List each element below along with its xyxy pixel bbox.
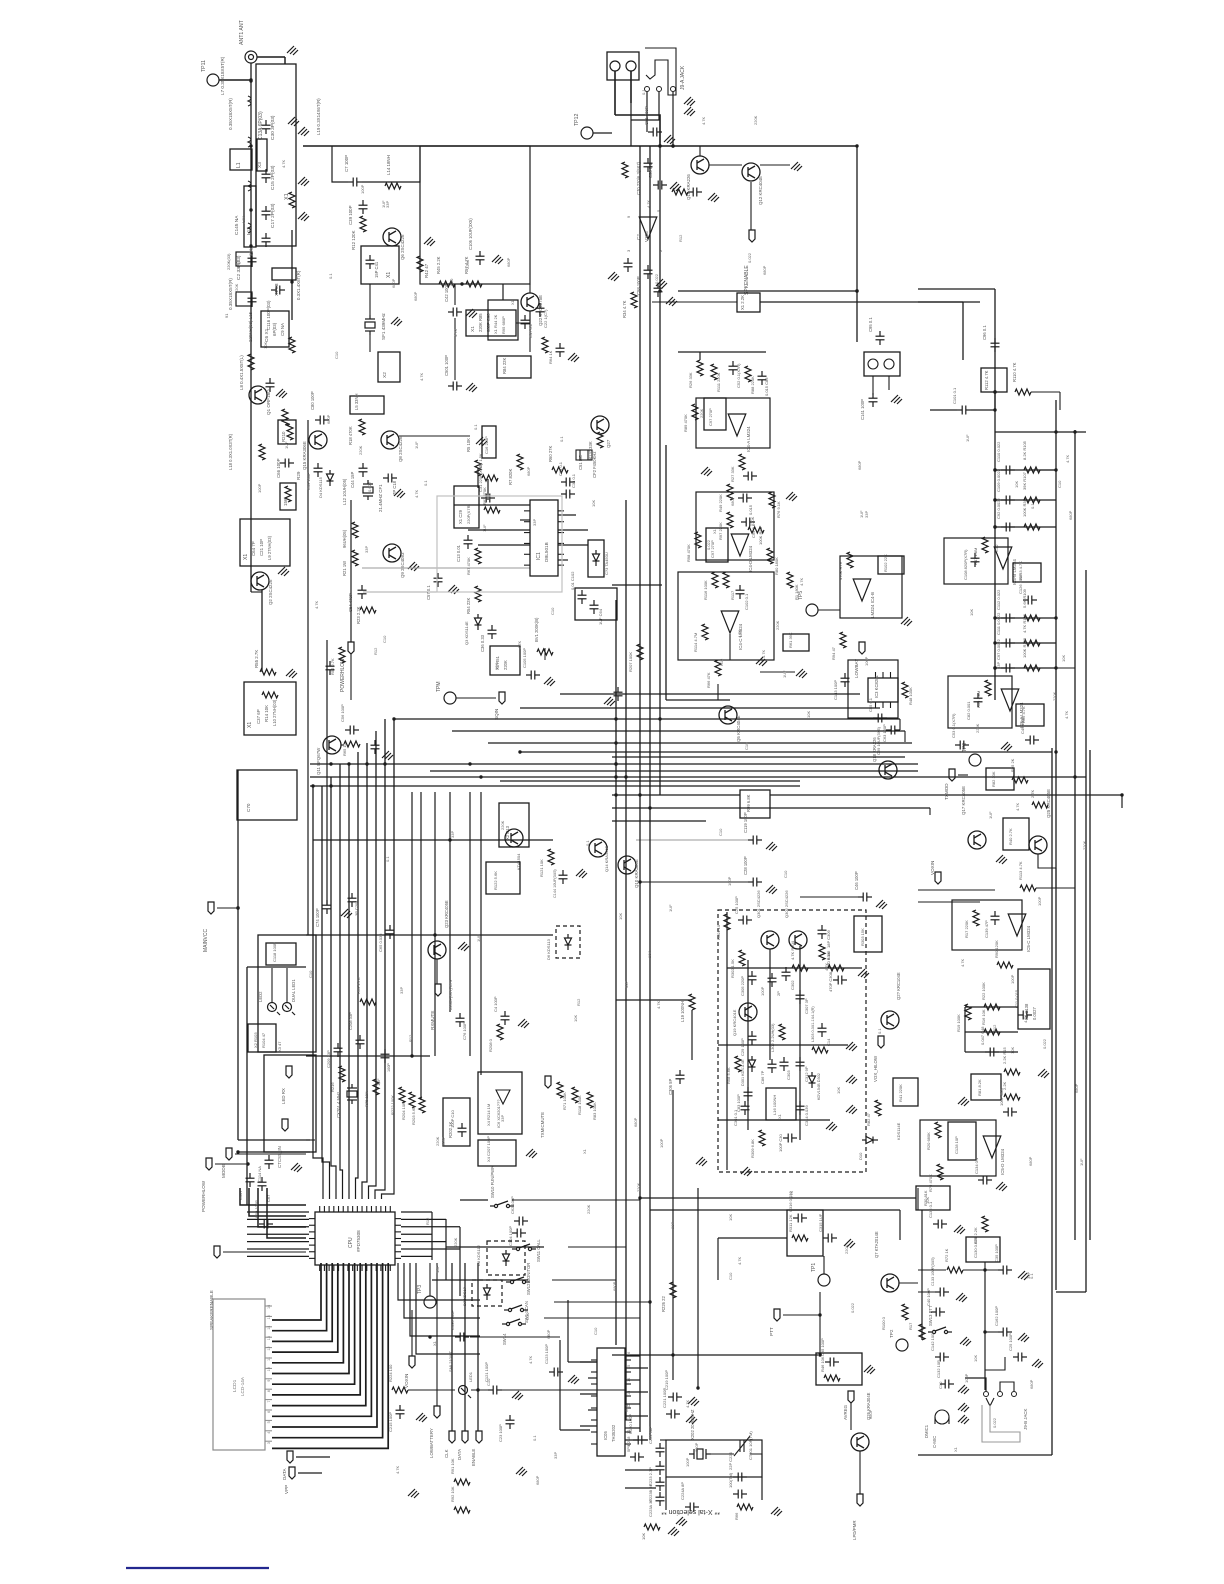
svg-text:R12: R12 [992,1024,997,1032]
svg-text:SW10 FUN/PWR: SW10 FUN/PWR [490,1166,495,1198]
wire [750,182,752,230]
svg-text:L7 0.35X18X5T(R): L7 0.35X18X5T(R) [220,56,225,95]
svg-text:33P: 33P [553,1452,558,1459]
capacitor C309 18P [818,925,827,939]
wire loop mixer [420,146,530,284]
ground [408,562,419,571]
wire [612,794,740,796]
capacitor C83b 0.015 [758,371,767,385]
wire [1055,868,1057,888]
wire loop IC4-D [696,492,774,560]
svg-text:10K: 10K [836,1087,841,1094]
svg-text:R91 10K: R91 10K [450,1458,455,1474]
wire [478,544,530,546]
wire LCD data [272,1263,349,1374]
resistor R97 220K [727,512,733,528]
svg-text:Q11 BFQ67W: Q11 BFQ67W [316,747,321,775]
ground [276,389,287,398]
svg-text:C59 100P: C59 100P [254,1200,259,1218]
transistor Q18 KRA226 [879,761,897,779]
ground [298,212,309,221]
capacitor C5 [248,293,257,307]
svg-text:14: 14 [267,1326,271,1330]
svg-text:10K: 10K [806,711,811,718]
svg-text:10K: 10K [263,342,268,349]
transistor Q9 2SC4083 [383,544,401,562]
wire VCO [718,1119,830,1121]
wire [888,376,890,390]
svg-text:CLK: CLK [444,1449,449,1458]
svg-text:R64 1K: R64 1K [548,350,553,364]
net flag MODE [226,1148,232,1160]
svg-text:10K: 10K [647,951,652,958]
svg-text:TXMOD: TXMOD [944,783,949,800]
svg-text:LPD/PMR: LPD/PMR [852,1520,857,1540]
capacitor C108 820P [971,553,980,567]
wire [672,1090,674,1380]
svg-text:C10: C10 [938,1381,943,1389]
resistor R?b [1032,802,1048,808]
wire [468,529,530,531]
resistor R18 470K [359,419,365,435]
wire IC05 pin [625,1439,648,1441]
wire [917,1188,919,1210]
op-amp IC5-D LM324 [983,1136,1001,1158]
wire [612,820,706,822]
svg-text:0.022: 0.022 [1042,1038,1047,1049]
svg-text:680P: 680P [413,291,418,301]
svg-text:R19 100K: R19 100K [956,1014,961,1032]
ground [286,669,297,678]
op-amp IC4-D LM324 [731,534,749,556]
svg-text:D10: D10 [858,1152,863,1160]
svg-text:L16 100NH: L16 100NH [772,1095,777,1115]
wire CPU feed [356,1150,359,1199]
wire [1059,392,1061,410]
RC block C85 R46 [816,1353,862,1385]
transistor Q12 KRC404E [742,163,760,181]
junction [614,793,617,796]
svg-text:1UF: 1UF [1079,1158,1084,1166]
wire [445,1219,447,1280]
ground [448,585,459,594]
ground [394,489,405,498]
svg-text:4.7K: 4.7K [414,489,419,498]
wire CPU feed [331,1150,336,1199]
ground [958,1415,969,1424]
svg-text:C25 100P: C25 100P [1008,1333,1013,1351]
net flag TXMOD [949,769,955,781]
svg-text:1UF: 1UF [476,934,481,942]
capacitor C24 0.1 [688,188,702,197]
jack J9-B body [982,1405,1020,1442]
svg-text:X1: X1 [953,1446,958,1452]
part X2 R103 R104 [248,1024,276,1052]
wire CPU right pin [401,1226,460,1228]
svg-text:V386: V386 [644,231,649,242]
svg-text:C53 0.1(X7R): C53 0.1(X7R) [951,713,956,738]
wire [410,1263,480,1336]
resistor R21 [285,486,291,502]
wire [313,839,553,841]
svg-text:PTT: PTT [769,1327,774,1336]
resistor R47 1.8M [982,537,988,553]
svg-text:L303 0.3X1.1X4.1(R): L303 0.3X1.1X4.1(R) [811,1006,815,1042]
part X2 D13 KTA1504 [499,803,529,847]
svg-text:X1: X1 [386,272,392,278]
wire vertical long [659,146,661,795]
resistor R55 2.7K [260,669,276,675]
resistor R49 220K [727,484,733,500]
wire bus horizontal [310,785,800,787]
dashed diode D6 KDS113 [556,926,580,958]
resistor R91 10K [454,1479,470,1485]
svg-text:X1: X1 [470,326,476,332]
part X2 R56 4.7K [1016,704,1044,726]
wire [963,1269,998,1271]
svg-text:DMIC1: DMIC1 [924,1424,929,1438]
part X1 L3 [272,268,296,280]
ground [901,617,912,626]
svg-text:470P C308: 470P C308 [828,971,833,992]
svg-text:L12 10UH(05): L12 10UH(05) [342,478,347,505]
wire [420,792,422,1100]
ground [741,1167,752,1176]
wire [666,699,730,701]
svg-text:R216: R216 [330,1082,335,1092]
junction [671,1353,674,1356]
svg-text:10: 10 [267,1367,271,1371]
svg-text:13: 13 [267,1336,271,1340]
capacitor C47 [521,315,530,329]
svg-text:SW12 MONITOR: SW12 MONITOR [526,1263,531,1295]
jack pins [645,87,676,92]
wire [965,1051,1018,1053]
junction [448,838,451,841]
svg-text:Q12 KRC404E: Q12 KRC404E [758,176,763,205]
svg-text:4.7K: 4.7K [789,1190,794,1199]
capacitor C13 0.01 [464,535,473,549]
resistor R27 33K [739,454,745,470]
wire [529,284,531,293]
wire vertical [665,445,667,700]
capacitor C57 0.1 [434,573,443,587]
part X1 R210 [278,420,296,444]
wire LCD data [272,1263,355,1384]
resistor R1 180K [787,572,793,588]
resistor R82b 47 [875,1100,881,1116]
net flag ENABLE [476,1431,482,1443]
junction [993,525,996,528]
svg-text:L10 27NH(03): L10 27NH(03) [272,699,277,726]
svg-text:0.015: 0.015 [748,504,753,515]
resistor R304 4.7K [792,965,808,971]
shield box X1 [256,64,296,246]
svg-text:Q1 ORF16D: Q1 ORF16D [266,389,271,415]
capacitor C? [624,258,633,272]
wire CPU feed [340,1150,343,1199]
wire [306,1055,430,1057]
capacitor C134 0.1 [978,1176,992,1185]
wire speaker net [249,1188,306,1216]
ground [958,1385,969,1394]
part X1 R84 22K [497,356,531,378]
svg-text:R66: R66 [734,1512,739,1520]
capacitor C223B 3P [656,1477,665,1491]
wire [646,92,648,132]
svg-text:TP12: TP12 [574,113,580,126]
resistor R25 1.5K [482,475,498,481]
svg-text:C10: C10 [624,1404,629,1412]
capacitor C316 0.033 [793,1214,807,1223]
svg-text:91: 91 [224,313,229,318]
wire CPU left pin [247,1233,309,1235]
ground [996,1182,1007,1191]
ground [424,237,435,246]
junction [993,408,996,411]
resistor R20 680K [935,1122,941,1138]
capacitor C208 33P [356,1035,365,1049]
svg-text:C119 100P: C119 100P [743,812,748,833]
svg-text:R90 120K: R90 120K [994,940,999,958]
svg-text:0.047 C48: 0.047 C48 [980,1026,985,1045]
capacitor C18 7P [383,474,397,483]
resistor R89 470K [692,404,698,420]
ground [846,1075,857,1084]
svg-text:C76 100P: C76 100P [462,1022,467,1040]
wire IC05 pin [625,1403,640,1405]
wire [612,1354,818,1356]
resistor R45 2.2K [439,281,455,287]
svg-text:C306 5P: C306 5P [668,1078,673,1095]
svg-text:R104 47: R104 47 [261,1032,266,1048]
mixer block X1 [361,246,399,284]
part X2 R122 5.6K [486,862,520,894]
wire [487,479,489,500]
resistor R203 5.6K [419,1097,425,1113]
filter block L11 [244,186,256,247]
capacitor C119 100P [748,836,762,845]
junction [855,289,858,292]
transistor Q15 KRA306E [309,431,327,449]
svg-text:R309 6.8K: R309 6.8K [750,1139,755,1158]
junction [658,717,661,720]
resistor R19b 100K [965,1004,971,1020]
junction [249,79,252,82]
part X2 R102 22K [878,556,904,574]
wire [350,654,352,700]
svg-text:R89 470K: R89 470K [683,414,688,432]
svg-text:R17: R17 [908,1322,913,1330]
svg-text:SW11 CALL: SW11 CALL [536,1239,541,1262]
svg-text:#PD75308: #PD75308 [356,1230,361,1252]
wire [1040,667,1075,669]
wire [449,792,451,1012]
svg-text:220K: 220K [975,723,980,733]
svg-text:R71 100K: R71 100K [562,1092,567,1110]
svg-text:16: 16 [267,1305,271,1309]
svg-text:0.022: 0.022 [654,273,659,284]
svg-text:0.35X18X5T(R): 0.35X18X5T(R) [228,278,233,310]
capacitor C?2P [768,973,777,987]
junction [638,1196,641,1199]
LCD pin [265,1388,272,1390]
svg-text:C47 0.1: C47 0.1 [528,323,533,338]
capacitor C126 100P [1023,596,1037,605]
svg-text:680P: 680P [546,1329,551,1339]
op-amp IC4-A LM324 [728,414,746,436]
wire CPU right pin [401,1248,460,1250]
resistor R69 2.7K [360,999,376,1005]
svg-text:R75 12K: R75 12K [364,1091,369,1107]
svg-text:10K: 10K [925,1197,930,1204]
wire [560,693,860,695]
svg-text:C314 0.039: C314 0.039 [804,1105,809,1126]
svg-text:C10: C10 [334,351,339,359]
resistor R19 1.8M [985,680,991,696]
capacitor C303 [780,1057,789,1071]
wire loop IC4-B [840,556,902,618]
svg-text:4.7K R106: 4.7K R106 [1022,613,1027,633]
resistor R107 39K [1024,497,1040,503]
resistor R53 [282,409,288,425]
svg-text:C83 100P: C83 100P [736,1094,741,1112]
svg-text:LCD1: LCD1 [232,1379,238,1392]
junction bus [383,762,386,765]
wire ANT feed [250,63,252,592]
ground [516,1467,527,1476]
svg-text:220K: 220K [500,820,505,830]
op-amp IC4-B LM324 [853,579,871,601]
svg-text:C97 270P: C97 270P [708,408,713,426]
wire vertical bus [649,146,651,440]
dashed box VCO [718,910,866,1172]
svg-text:33P: 33P [399,987,404,994]
wire [965,1006,1018,1008]
wire [612,584,662,586]
capacitor C15 [262,169,271,183]
wire ladder [995,499,1056,501]
ground [298,127,309,136]
part X1 R21 15K [280,483,296,510]
part X1 R112 [981,368,1007,392]
capacitor C53 0.1(X7R) [955,741,969,750]
junction [993,666,996,669]
transistor Q5 KRC404E [719,706,737,724]
wire LCD data [272,1263,343,1363]
resistor R65 10 [344,741,360,747]
junction [1073,430,1076,433]
resistor R76b 470K [937,1164,943,1180]
junction [249,144,252,147]
wire [326,640,328,905]
svg-text:L8 0.4X1.5X5T(L): L8 0.4X1.5X5T(L) [239,355,244,390]
wire [699,146,701,156]
capacitor C222 68P [656,1443,665,1457]
svg-text:C10: C10 [718,828,723,836]
svg-text:96UH(05): 96UH(05) [342,529,347,548]
svg-text:R120 33K: R120 33K [588,441,593,460]
wire [469,792,471,1056]
svg-text:220K: 220K [775,620,780,630]
part X2 C130 0.038 [966,1237,1000,1262]
resistor R98 470K [695,532,701,548]
svg-text:0.1: 0.1 [877,1028,882,1034]
junction [476,1388,479,1391]
svg-text:Q19 KRC401E: Q19 KRC401E [732,1009,737,1036]
svg-text:33P: 33P [864,511,869,518]
wire bus vertical [321,786,323,1150]
resistor R100 0 [919,1324,925,1340]
pot arrow BV1 [544,648,546,660]
wire LCD data [272,1263,360,1395]
svg-text:VOXIN: VOXIN [404,1374,409,1388]
ground [604,697,615,706]
capacitor C501 100P [448,382,462,391]
svg-text:Q15 KRA306E: Q15 KRA306E [302,441,307,470]
svg-text:100K R35: 100K R35 [1022,498,1027,517]
ground [476,437,487,446]
svg-text:33P: 33P [670,1222,675,1229]
IC IC3 KC8201 [868,672,898,708]
wire [554,1301,650,1303]
svg-text:C105 100P: C105 100P [522,648,527,668]
ground [876,900,887,909]
capacitor [371,740,380,754]
wire [699,352,701,360]
footer rule [126,1567,269,1569]
wire [616,999,692,1001]
resistor R113 4.7K [1020,885,1036,891]
wire CPU feed [375,1150,385,1199]
svg-text:R7 820K: R7 820K [508,468,513,485]
svg-text:C303: C303 [786,1070,791,1080]
svg-text:220K: 220K [1082,840,1087,850]
svg-text:Q302 2SC4226: Q302 2SC4226 [784,890,789,918]
diode D302 KDV154B [809,1072,816,1088]
net flag LPD/PWR [857,1494,863,1506]
wire [459,1227,461,1296]
svg-text:C307 3P: C307 3P [804,998,809,1014]
svg-text:Q17 KRC405E: Q17 KRC405E [961,786,966,815]
svg-text:R49 220K: R49 220K [718,494,723,512]
wire VCO [727,967,862,969]
wire bus [520,707,880,709]
svg-text:220P(X7R): 220P(X7R) [466,504,471,524]
svg-text:C209 33P: C209 33P [326,1050,331,1068]
capacitor C106 10UF [476,251,485,265]
svg-text:R116 100K: R116 100K [703,580,708,600]
wire left vertical [307,420,309,935]
svg-text:2.7K: 2.7K [1030,789,1035,798]
junction [993,498,996,501]
svg-text:C2: C2 [636,234,641,240]
capacitor C104 100P [512,1229,526,1238]
svg-text:4.7K: 4.7K [656,1000,661,1009]
svg-text:L19 0.3X14X6T(R): L19 0.3X14X6T(R) [316,98,321,135]
ground [416,1413,427,1422]
svg-text:C11 0.015: C11 0.015 [1014,989,1019,1008]
svg-text:R112 4.7K: R112 4.7K [984,370,989,390]
resistor R88 220K [745,366,751,382]
switch SW1 SCAN [504,1305,528,1312]
part X1 R82 10K [986,768,1014,790]
wire [770,794,1122,796]
svg-text:1UF: 1UF [988,811,993,819]
LCD pin [265,1336,272,1338]
svg-text:1UF C64: 1UF C64 [598,608,603,625]
filter C6 X1 [261,311,289,347]
